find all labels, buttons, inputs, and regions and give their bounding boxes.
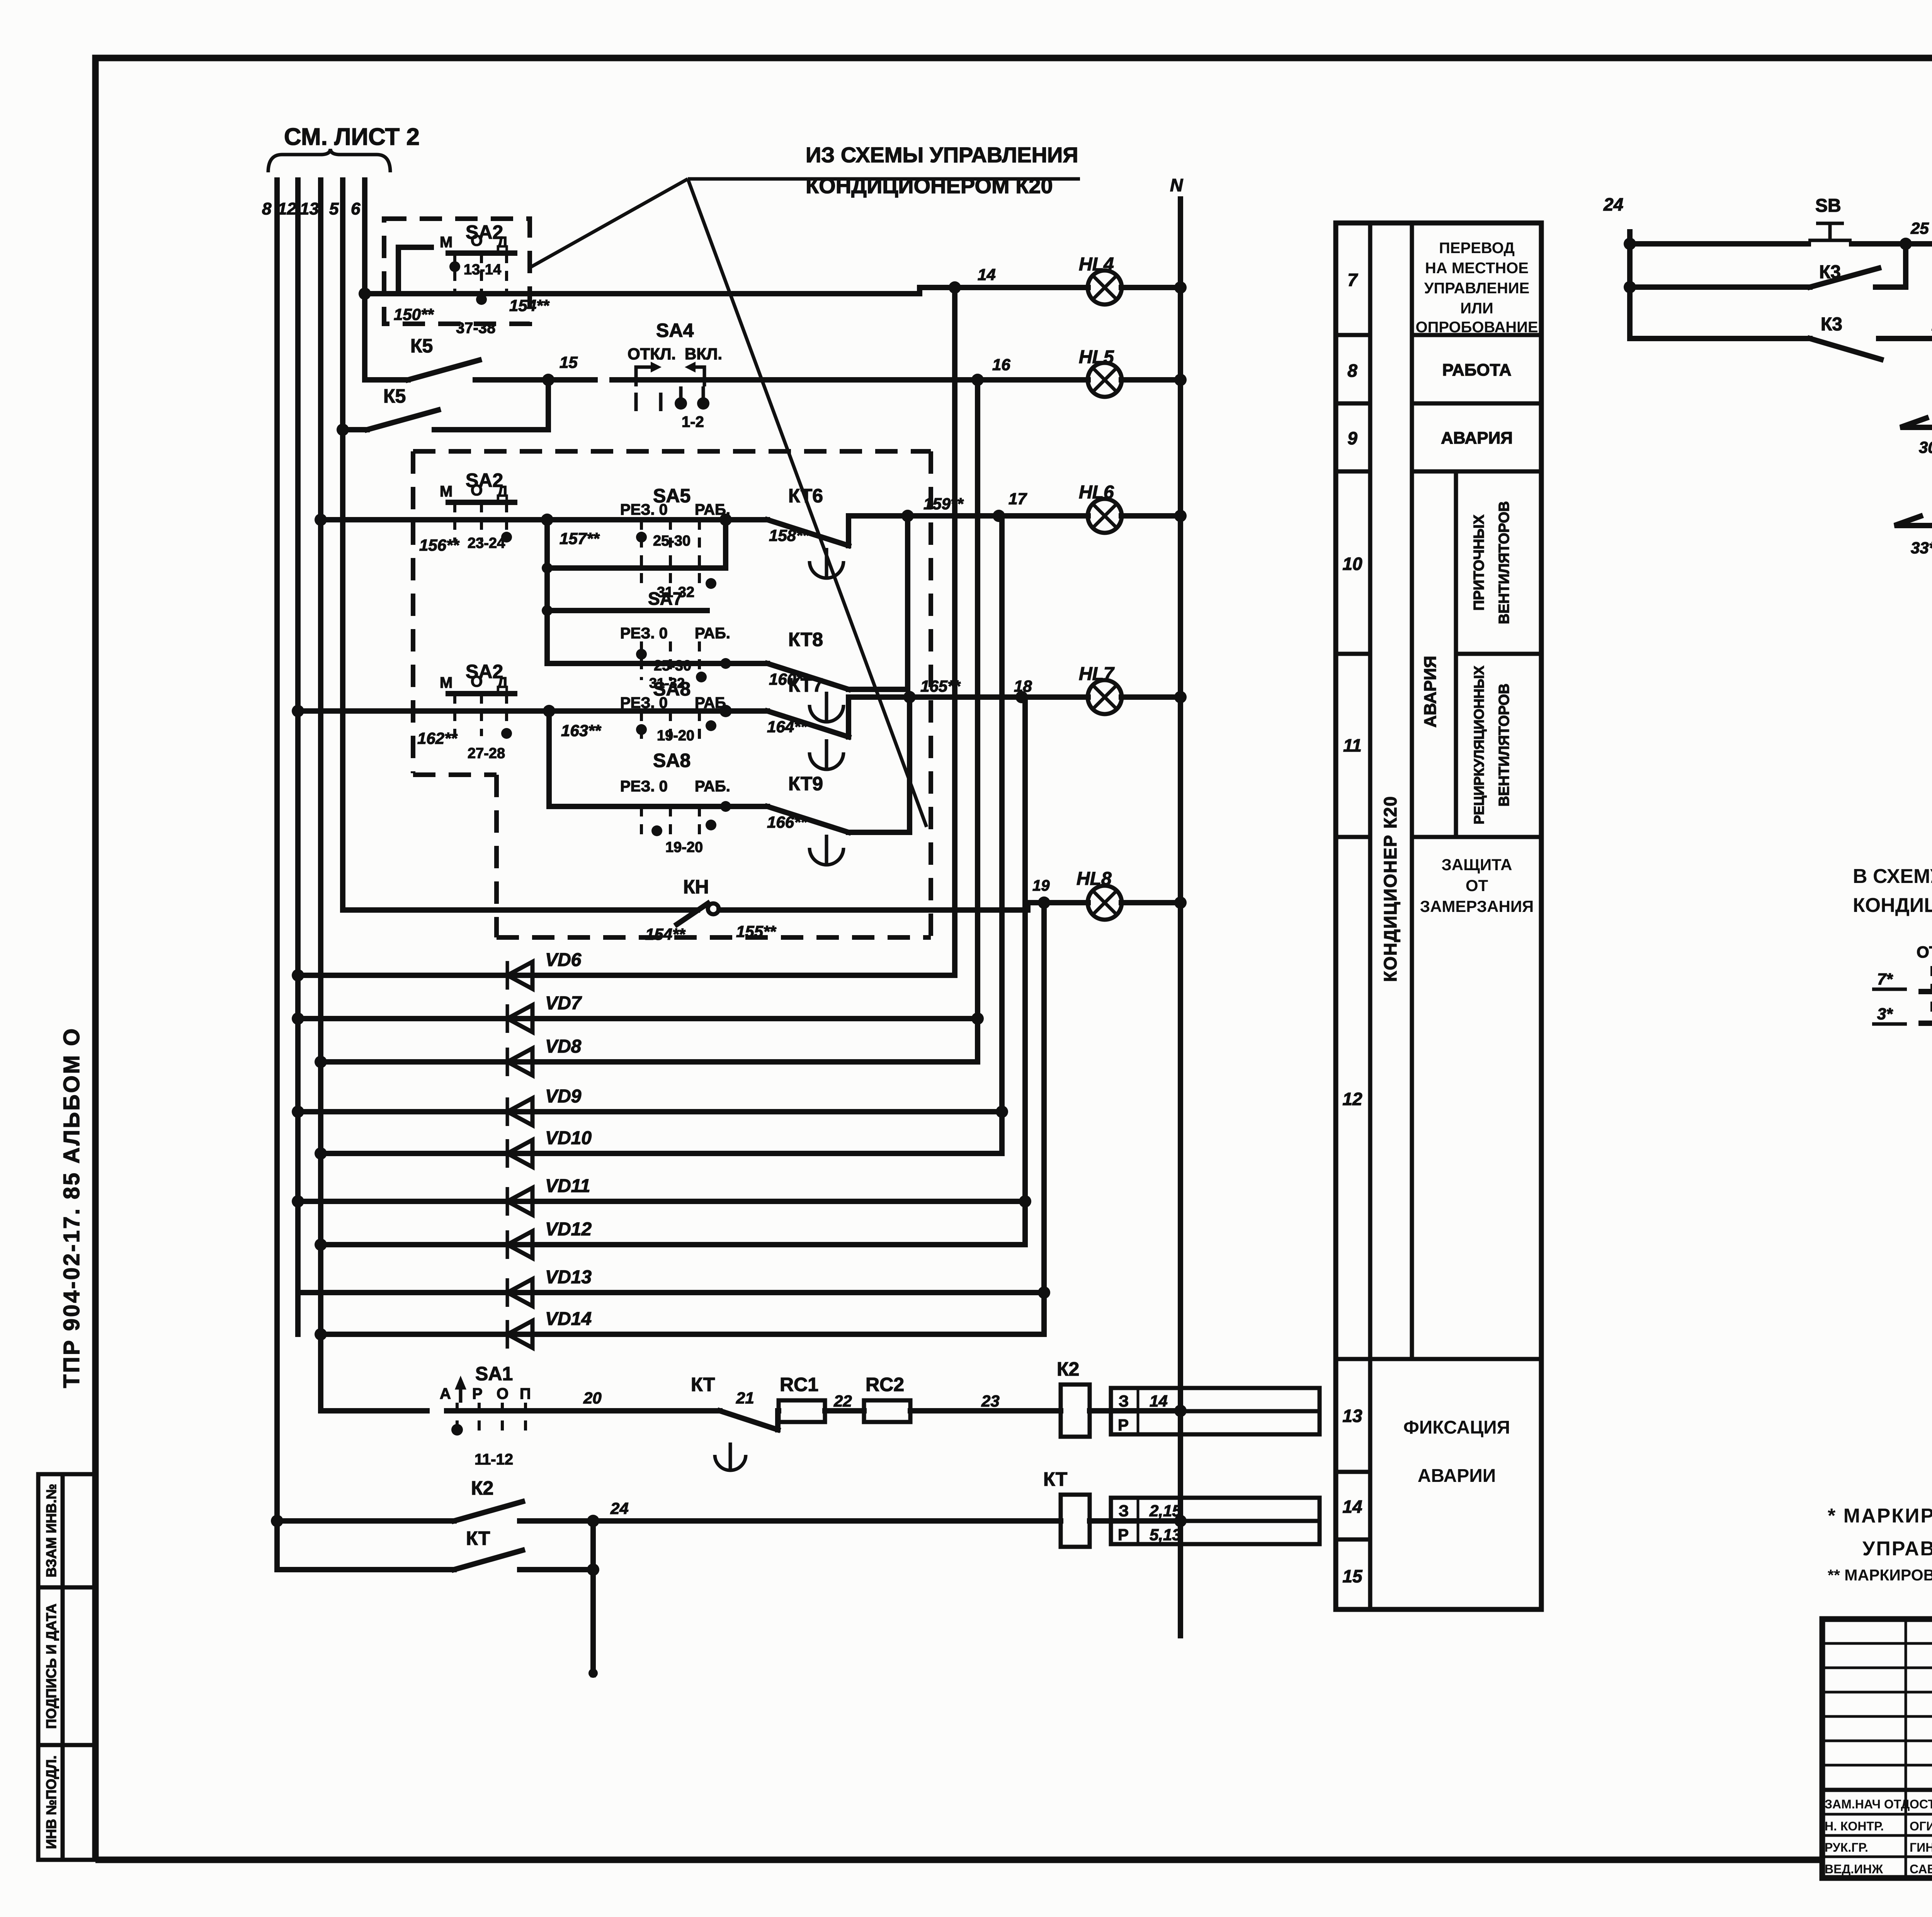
svg-text:УПРАВЛЕНИЯ КОНДИЦИОНЕРОМ 1: УПРАВЛЕНИЯ КОНДИЦИОНЕРОМ 1К <box>1862 1538 1932 1560</box>
table cell fiksacia avarii <box>1403 1417 1510 1486</box>
switch SA7 <box>542 589 730 691</box>
switch SA3 <box>1872 921 1932 1065</box>
svg-text:КТ9: КТ9 <box>788 773 823 794</box>
svg-text:27-28: 27-28 <box>468 745 505 762</box>
svg-text:13-14: 13-14 <box>464 262 501 278</box>
svg-text:HL5: HL5 <box>1079 347 1114 367</box>
svg-text:М: М <box>440 674 452 691</box>
svg-text:11: 11 <box>1343 735 1362 755</box>
svg-text:В СХЕМУ УПРАВЛЕНИЯ: В СХЕМУ УПРАВЛЕНИЯ <box>1853 865 1932 888</box>
svg-text:РЕЗ. 0: РЕЗ. 0 <box>620 694 668 711</box>
svg-text:КТ6: КТ6 <box>788 485 823 507</box>
svg-text:К5: К5 <box>383 385 406 407</box>
svg-text:ОТ: ОТ <box>1466 876 1488 895</box>
drop wire from node 19 <box>1041 903 1047 1334</box>
KT8 feed rail <box>547 520 731 669</box>
svg-text:ЗАМ.НАЧ ОТД: ЗАМ.НАЧ ОТД <box>1825 1797 1910 1811</box>
svg-text:1-2: 1-2 <box>682 413 704 430</box>
svg-text:ФИКСАЦИЯ: ФИКСАЦИЯ <box>1403 1417 1510 1438</box>
time relay contact KT8 <box>726 516 908 722</box>
svg-text:19-20: 19-20 <box>665 839 703 856</box>
contact KT row <box>277 1521 599 1678</box>
table cell pritochnyh <box>1471 501 1512 624</box>
lamp HL7 <box>1079 664 1122 714</box>
table cell row7 <box>1415 240 1538 336</box>
svg-text:37-38: 37-38 <box>456 320 495 337</box>
svg-text:157**: 157** <box>560 529 600 548</box>
svg-text:HL6: HL6 <box>1079 482 1114 503</box>
svg-text:14: 14 <box>1342 1497 1362 1517</box>
table cell recirculacionnyh <box>1471 666 1512 825</box>
table cell zashchita <box>1420 856 1534 915</box>
svg-text:КТ: КТ <box>691 1374 715 1395</box>
switch SA5 <box>560 485 730 587</box>
bus wire 12 <box>295 180 301 1334</box>
bus wire 13 <box>318 180 323 1411</box>
svg-text:КОНДИЦИОНЕРОМ К20: КОНДИЦИОНЕРОМ К20 <box>806 173 1053 198</box>
svg-text:5,13: 5,13 <box>1150 1526 1181 1544</box>
diode VD10 <box>315 1128 1002 1168</box>
svg-text:SA1: SA1 <box>475 1363 513 1385</box>
svg-text:VD8: VD8 <box>545 1036 582 1057</box>
svg-text:О: О <box>497 1385 509 1402</box>
svg-text:164**: 164** <box>767 718 807 736</box>
svg-text:12: 12 <box>1342 1089 1362 1109</box>
svg-text:ТПР 904-02-17. 85 АЛЬБОМ: ТПР 904-02-17. 85 АЛЬБОМ О <box>59 1027 84 1388</box>
svg-text:9: 9 <box>1347 428 1357 448</box>
svg-text:HL7: HL7 <box>1079 664 1115 684</box>
svg-text:РЕЦИРКУЛЯЦИОННЫХ: РЕЦИРКУЛЯЦИОННЫХ <box>1471 666 1487 825</box>
contact K3 with bell HA row <box>1630 297 1932 359</box>
svg-text:** МАРКИРОВКА ПРОВОДОВ ИЗ СХЕ: ** МАРКИРОВКА ПРОВОДОВ ИЗ СХЕМЫ УПРАВЛЕН… <box>1828 1566 1932 1584</box>
svg-text:ОГИЕНКО: ОГИЕНКО <box>1910 1819 1932 1833</box>
signal function table <box>1336 223 1541 1609</box>
node 18 row wire <box>292 705 732 717</box>
svg-text:ПЕРЕВОД: ПЕРЕВОД <box>1439 240 1515 257</box>
diode VD7 <box>292 993 984 1033</box>
svg-text:154**: 154** <box>509 296 549 315</box>
svg-text:КОНДИЦИОНЕРОМ К10: КОНДИЦИОНЕРОМ К10 <box>1853 894 1932 917</box>
svg-text:КН: КН <box>683 876 709 898</box>
svg-text:30*: 30* <box>1919 438 1932 456</box>
svg-text:КТ8: КТ8 <box>788 629 823 650</box>
svg-text:19-20: 19-20 <box>657 728 694 744</box>
svg-text:З: З <box>1119 1502 1129 1520</box>
svg-text:А: А <box>440 1385 451 1402</box>
svg-text:VD9: VD9 <box>545 1086 582 1107</box>
SA5 lower rail <box>542 520 726 600</box>
bus wire 5 <box>340 180 345 910</box>
svg-text:14: 14 <box>1150 1392 1168 1410</box>
svg-text:Д: Д <box>497 674 508 691</box>
pushbutton KH row / node 19 <box>343 876 1180 943</box>
svg-text:8: 8 <box>1347 361 1357 381</box>
svg-text:Д: Д <box>497 483 508 500</box>
svg-text:23-24: 23-24 <box>468 535 505 551</box>
coil K2 <box>1057 1358 1187 1437</box>
svg-text:24: 24 <box>1603 194 1623 214</box>
svg-text:159**: 159** <box>923 495 964 513</box>
diode VD6 <box>292 950 955 990</box>
resistor RC1 <box>778 1374 864 1422</box>
svg-text:163**: 163** <box>561 721 601 740</box>
svg-text:HL4: HL4 <box>1079 254 1114 275</box>
svg-text:17: 17 <box>1009 490 1027 508</box>
svg-text:25: 25 <box>1910 219 1929 237</box>
svg-text:13: 13 <box>300 199 319 218</box>
time contact KT in SA1 row <box>691 1374 779 1470</box>
switch SA1 row with KT contact, RC1 RC2, coil K2 <box>321 1363 720 1468</box>
svg-text:155**: 155** <box>736 922 776 941</box>
title block <box>1822 1619 1932 1878</box>
diode VD12 <box>315 1219 1025 1259</box>
contact K3 (self hold) <box>1630 244 1906 287</box>
svg-text:SA7: SA7 <box>648 589 682 609</box>
svg-text:ПОДПИСЬ И ДАТА: ПОДПИСЬ И ДАТА <box>43 1604 59 1729</box>
switch SA2 (upper) <box>394 221 549 337</box>
svg-text:ИЛИ: ИЛИ <box>1460 300 1493 317</box>
svg-text:2,15: 2,15 <box>1149 1502 1181 1520</box>
svg-text:М: М <box>440 483 452 500</box>
drop wire from node 18 <box>1022 697 1028 1245</box>
switch diagram SA3 title <box>1853 865 1932 917</box>
node 16 row wire with K5 contact <box>365 335 1180 386</box>
svg-text:З: З <box>1119 1392 1129 1410</box>
big dashed selector box <box>413 451 931 937</box>
svg-text:О: О <box>471 232 483 249</box>
svg-text:АВАРИИ: АВАРИИ <box>1418 1466 1496 1486</box>
drop wire from node 17 <box>999 516 1005 1153</box>
svg-text:VD11: VD11 <box>545 1176 590 1196</box>
svg-text:ВЕНТИЛЯТОРОВ: ВЕНТИЛЯТОРОВ <box>1496 501 1512 624</box>
coil K5 row <box>1895 476 1932 557</box>
svg-text:ГИНОДМАН: ГИНОДМАН <box>1910 1840 1932 1854</box>
svg-text:О: О <box>471 482 483 499</box>
svg-text:15: 15 <box>560 353 578 371</box>
svg-text:* МАРКИРОВКА ПРОВОДОВ И: * МАРКИРОВКА ПРОВОДОВ ИЗ СХЕМЫ <box>1828 1505 1932 1527</box>
callout text: from control circuit of conditioner K20 <box>688 143 1080 198</box>
svg-text:16: 16 <box>992 356 1010 374</box>
svg-text:Р: Р <box>1118 1416 1129 1434</box>
svg-text:12: 12 <box>277 199 296 218</box>
svg-text:ОПРОБОВАНИЕ: ОПРОБОВАНИЕ <box>1415 319 1538 336</box>
svg-text:ВЕНТИЛЯТОРОВ: ВЕНТИЛЯТОРОВ <box>1496 684 1512 806</box>
right circuit: bus 24 <box>1603 194 1636 338</box>
svg-text:SВ: SВ <box>1815 196 1841 216</box>
svg-text:АВАРИЯ: АВАРИЯ <box>1441 429 1513 447</box>
svg-text:АВАРИЯ: АВАРИЯ <box>1421 656 1440 728</box>
svg-text:М: М <box>440 234 452 251</box>
switch SA4 on row 16 <box>628 320 722 430</box>
sidebar rotated doc number <box>59 1027 84 1388</box>
time relay contact KT6 <box>726 485 1180 578</box>
svg-text:РАБ.: РАБ. <box>695 501 730 518</box>
svg-text:РЕЗ. 0: РЕЗ. 0 <box>620 625 668 642</box>
bus wire 6 <box>362 180 367 380</box>
svg-text:150**: 150** <box>394 305 434 323</box>
diode VD11 <box>292 1176 1031 1216</box>
svg-text:СМ. ЛИСТ 2: СМ. ЛИСТ 2 <box>284 124 420 150</box>
diode VD8 <box>315 1036 978 1076</box>
svg-text:КТ: КТ <box>466 1527 490 1549</box>
table row numbers <box>1342 270 1363 1586</box>
footnote markings <box>1828 1505 1932 1584</box>
lamp HL6 <box>1079 482 1122 533</box>
svg-text:О: О <box>471 673 483 690</box>
svg-text:RC1: RC1 <box>780 1374 818 1395</box>
svg-text:РУК.ГР.: РУК.ГР. <box>1825 1840 1868 1854</box>
svg-text:Д: Д <box>497 234 508 251</box>
svg-text:ОТКЛ.: ОТКЛ. <box>628 345 676 363</box>
svg-text:ВЗАМ ИНВ.№: ВЗАМ ИНВ.№ <box>43 1484 59 1577</box>
svg-text:33**: 33** <box>1911 539 1932 557</box>
svg-text:RC2: RC2 <box>866 1374 904 1395</box>
sidebar stamp boxes <box>38 1474 95 1860</box>
svg-text:SA8: SA8 <box>653 750 690 771</box>
svg-text:15: 15 <box>1342 1566 1363 1586</box>
svg-text:VD12: VD12 <box>545 1219 592 1240</box>
switch SA2 (lower) <box>417 661 515 762</box>
svg-text:25-30: 25-30 <box>653 533 690 549</box>
svg-text:166**: 166** <box>767 813 807 831</box>
svg-text:19: 19 <box>1032 877 1050 894</box>
neutral line N <box>1170 175 1187 1636</box>
svg-text:VD6: VD6 <box>545 950 582 970</box>
svg-text:156**: 156** <box>419 536 459 554</box>
contact development table for K2 <box>1111 1388 1320 1434</box>
svg-text:7: 7 <box>1347 270 1358 290</box>
svg-text:VD10: VD10 <box>545 1128 592 1148</box>
svg-text:Р: Р <box>1118 1526 1129 1544</box>
bus wire 8 <box>274 180 280 1570</box>
resistor RC2 <box>864 1374 1061 1422</box>
svg-text:VD7: VD7 <box>545 993 582 1014</box>
bus labels 8 12 13 5 6 <box>262 199 361 218</box>
callout leader line to SA2 box <box>530 179 688 267</box>
svg-text:158**: 158** <box>769 526 809 544</box>
svg-text:20: 20 <box>583 1389 602 1407</box>
svg-text:ВКЛ.: ВКЛ. <box>685 345 722 363</box>
switch SA8 (lower) <box>549 711 730 856</box>
lamp HL8 <box>1077 869 1122 920</box>
svg-text:22: 22 <box>833 1392 852 1410</box>
svg-text:HL8: HL8 <box>1077 869 1112 889</box>
svg-text:162**: 162** <box>417 729 457 747</box>
svg-text:18: 18 <box>1014 677 1032 695</box>
svg-text:РАБ: РАБ <box>695 694 726 711</box>
svg-text:5: 5 <box>329 199 339 218</box>
contact development table for KT <box>1111 1498 1320 1544</box>
svg-text:14: 14 <box>978 265 996 284</box>
svg-text:13: 13 <box>1342 1406 1362 1426</box>
svg-text:Н. КОНТР.: Н. КОНТР. <box>1825 1819 1884 1833</box>
time relay contact KT9 <box>720 697 910 865</box>
svg-text:РАБ.: РАБ. <box>695 778 730 795</box>
diode VD9 <box>292 1086 1008 1126</box>
svg-text:КТ: КТ <box>1043 1468 1067 1490</box>
svg-text:10: 10 <box>1342 554 1362 574</box>
svg-text:НА МЕСТНОЕ: НА МЕСТНОЕ <box>1425 260 1529 277</box>
svg-text:6: 6 <box>351 199 361 218</box>
svg-text:ОТКЛ.: ОТКЛ. <box>1917 943 1932 961</box>
svg-text:3*: 3* <box>1877 1005 1893 1023</box>
pushbutton SB row with coil K3 <box>1630 192 1932 270</box>
svg-text:21: 21 <box>736 1389 754 1407</box>
svg-text:РАБОТА: РАБОТА <box>1442 361 1512 379</box>
svg-text:8: 8 <box>262 199 272 218</box>
svg-text:Р: Р <box>472 1385 483 1402</box>
coil K4 row <box>1900 378 1932 456</box>
svg-text:23: 23 <box>981 1392 1000 1410</box>
svg-text:SA4: SA4 <box>656 320 694 341</box>
drop wire from node 16 <box>975 380 980 1062</box>
diode VD14 <box>315 1309 1044 1349</box>
second K5 contact row <box>337 374 554 436</box>
time relay contact KT7 <box>726 674 1180 769</box>
svg-text:7*: 7* <box>1877 970 1893 988</box>
svg-text:ИЗ СХЕМЫ УПРАВЛЕНИЯ: ИЗ СХЕМЫ УПРАВЛЕНИЯ <box>806 143 1078 167</box>
svg-text:КТ7: КТ7 <box>788 674 823 696</box>
svg-text:ВЕД.ИНЖ: ВЕД.ИНЖ <box>1825 1862 1883 1876</box>
svg-text:П: П <box>520 1385 531 1402</box>
svg-text:N: N <box>1170 175 1183 195</box>
note: see sheet 2 <box>268 124 420 172</box>
svg-text:ЗАЩИТА: ЗАЩИТА <box>1442 856 1512 874</box>
drop wire from node 14 <box>952 287 957 975</box>
svg-text:ПРИТОЧНЫХ: ПРИТОЧНЫХ <box>1471 514 1487 611</box>
svg-text:К2: К2 <box>1057 1358 1079 1380</box>
svg-text:К3: К3 <box>1821 314 1842 335</box>
dashed box around SA2 (upper) <box>384 219 530 324</box>
svg-text:САВЕЛОВА: САВЕЛОВА <box>1910 1862 1932 1876</box>
node 17 row wire <box>315 514 732 526</box>
svg-text:К2: К2 <box>471 1477 493 1499</box>
svg-text:VD13: VD13 <box>545 1267 592 1288</box>
svg-text:ОСТРОВСКИЙ: ОСТРОВСКИЙ <box>1910 1797 1932 1811</box>
svg-text:ИНВ №ПОДЛ.: ИНВ №ПОДЛ. <box>43 1755 59 1849</box>
switch SA8 (upper) <box>561 678 726 746</box>
svg-text:К5: К5 <box>410 335 433 357</box>
svg-text:154**: 154** <box>645 925 685 943</box>
lamp HL4 <box>1079 254 1122 304</box>
svg-text:ЗАМЕРЗАНИЯ: ЗАМЕРЗАНИЯ <box>1420 897 1534 915</box>
svg-text:РЕЗ. 0: РЕЗ. 0 <box>620 778 668 795</box>
contact K2 row with node 24 and coil KT <box>271 1468 1187 1547</box>
svg-text:РЕЗ. 0: РЕЗ. 0 <box>620 501 668 518</box>
svg-text:11-12: 11-12 <box>474 1451 513 1468</box>
svg-text:VD14: VD14 <box>545 1309 592 1329</box>
callout leader line to dashed box right edge <box>688 179 927 827</box>
svg-text:РАБ.: РАБ. <box>695 625 730 642</box>
svg-text:УПРАВЛЕНИЕ: УПРАВЛЕНИЕ <box>1424 280 1530 297</box>
diode VD13 <box>298 1267 1050 1307</box>
svg-text:24: 24 <box>610 1499 629 1517</box>
switch SA2 (middle) <box>419 469 515 554</box>
node 14 row wire <box>359 265 1180 300</box>
title block signatures <box>1825 1797 1932 1876</box>
svg-text:КОНДИЦИОНЕР К20: КОНДИЦИОНЕР К20 <box>1380 796 1400 982</box>
lamp HL5 <box>1079 347 1122 397</box>
